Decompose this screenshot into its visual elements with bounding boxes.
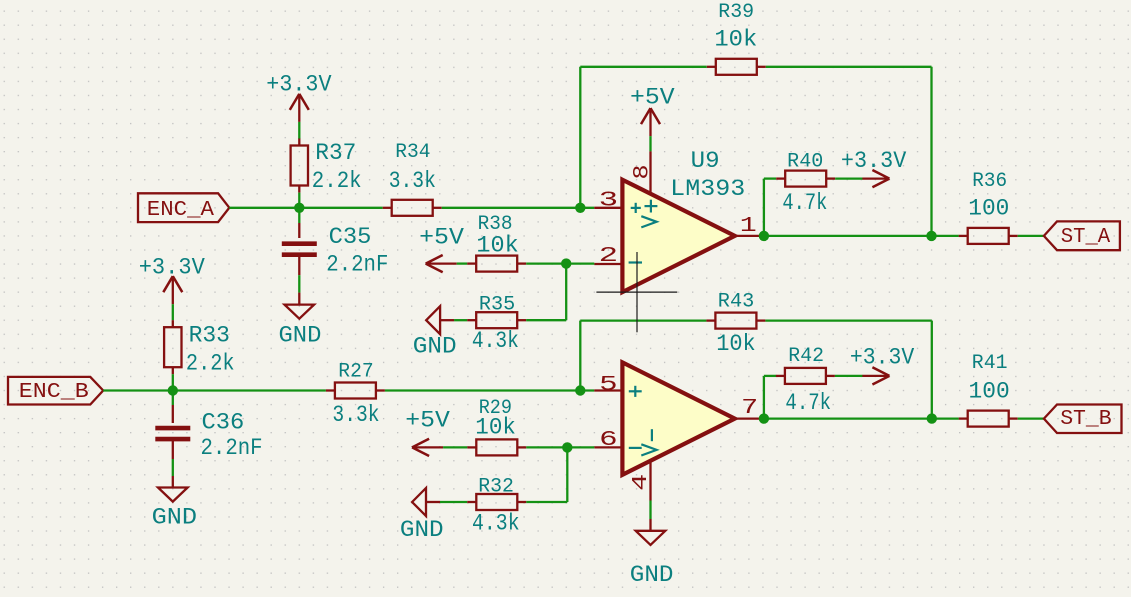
svg-text:R36: R36	[972, 170, 1007, 193]
svg-text:R34: R34	[395, 141, 430, 164]
wire R35 to vertical	[526, 319, 566, 321]
op-amp A output pin 1 stub	[735, 235, 764, 237]
wire GND to R35	[454, 319, 467, 321]
wire output A to R40 riser	[763, 179, 765, 236]
wire junction down to R35	[565, 264, 567, 321]
svg-text:3.3k: 3.3k	[332, 402, 379, 428]
power flag +3.3V at R42	[862, 375, 889, 377]
svg-text:+5V: +5V	[630, 84, 675, 110]
svg-text:2.2k: 2.2k	[186, 351, 235, 377]
op-amp A input + marker	[631, 207, 641, 209]
resistor R34	[383, 207, 392, 209]
hierarchical label ENC_B	[8, 377, 103, 405]
ground GND at R32	[412, 488, 426, 516]
svg-text:2.2k: 2.2k	[312, 168, 362, 194]
resistor R43	[706, 319, 715, 321]
wire +5V to R29	[443, 446, 467, 448]
wire +5V to pin 8	[649, 136, 651, 151]
svg-text:+3.3V: +3.3V	[850, 345, 915, 371]
svg-text:R39: R39	[718, 1, 754, 24]
power flag +5V (pin 8)	[649, 108, 651, 136]
power flag +5V at R38	[426, 262, 457, 264]
op-amp B output pin 7 stub	[735, 417, 764, 419]
svg-text:1: 1	[740, 215, 757, 238]
svg-text:GND: GND	[400, 517, 444, 543]
junction pin2 node	[561, 258, 571, 268]
op-amp B input - marker	[629, 447, 642, 449]
svg-text:100: 100	[969, 379, 1010, 405]
op-amp B pin 5 stub	[594, 389, 622, 391]
wire C35 top	[298, 208, 300, 223]
svg-text:7: 7	[741, 397, 758, 420]
hierarchical label ST_B	[1044, 405, 1122, 434]
svg-text:C35: C35	[329, 224, 372, 250]
junction output A at pin 1	[759, 231, 769, 241]
op-amp U9A pin 8 lead	[649, 151, 651, 193]
svg-text:3: 3	[599, 190, 619, 213]
svg-text:GND: GND	[279, 322, 322, 348]
svg-text:R35: R35	[479, 294, 515, 317]
wire +3.3V to R33	[172, 304, 174, 320]
svg-text:100: 100	[968, 196, 1009, 222]
svg-text:5: 5	[599, 374, 618, 397]
hierarchical label ST_A	[1044, 221, 1120, 250]
wire C36 top	[172, 391, 174, 406]
op-amp A V+ pin name	[645, 205, 658, 207]
ground GND below pin 4	[636, 531, 666, 545]
ground GND below C36	[158, 488, 188, 502]
svg-text:+5V: +5V	[419, 225, 464, 251]
wire ENC_A to R34	[229, 207, 382, 209]
resistor R40	[776, 177, 785, 179]
power flag +5V at R29	[412, 446, 443, 448]
svg-text:R41: R41	[972, 352, 1008, 375]
svg-text:10k: 10k	[714, 27, 757, 53]
wire R32 to vertical	[526, 501, 567, 503]
op-amp B V- pin name	[651, 429, 653, 441]
op-amp U9A LM393 comparator A	[622, 180, 734, 292]
svg-text:10k: 10k	[475, 414, 516, 440]
svg-text:ST_B: ST_B	[1060, 407, 1112, 431]
wire R36 to ST_A	[1018, 235, 1044, 237]
wire R42 to +3.3V	[835, 375, 863, 377]
svg-text:C36: C36	[202, 409, 245, 435]
resistor R42	[776, 375, 785, 377]
svg-text:4.7k: 4.7k	[782, 190, 827, 216]
resistor R32	[467, 501, 476, 503]
svg-text:U9: U9	[691, 148, 720, 174]
resistor R38	[467, 262, 476, 264]
svg-text:2.2nF: 2.2nF	[201, 435, 263, 461]
wire ENC_B to R27	[103, 389, 326, 391]
svg-text:ST_A: ST_A	[1061, 225, 1111, 249]
svg-text:+3.3V: +3.3V	[841, 148, 907, 174]
svg-text:R40: R40	[787, 150, 823, 173]
svg-text:R42: R42	[788, 345, 824, 368]
wire C35 bottom to GND	[298, 255, 300, 275]
svg-text:R27: R27	[338, 360, 373, 383]
junction pin6 node	[562, 442, 572, 452]
junction pin3 node	[575, 203, 585, 213]
wire GND to R32	[440, 501, 467, 503]
svg-text:R37: R37	[315, 140, 356, 166]
wire R37 to node A	[298, 193, 300, 208]
power flag +3.3V at R40	[862, 177, 889, 179]
capacitor C36	[155, 426, 190, 431]
svg-text:+3.3V: +3.3V	[266, 72, 331, 98]
hierarchical label ENC_A	[138, 193, 229, 222]
svg-text:R32: R32	[478, 476, 514, 499]
wire R27 to pin 5 junction	[385, 389, 594, 391]
op-amp A pin 2 stub	[594, 263, 622, 265]
svg-text:GND: GND	[152, 505, 197, 531]
op-amp U9B LM393 comparator B	[622, 362, 734, 474]
svg-text:R43: R43	[718, 290, 755, 313]
wire R34 to pin 3 junction	[442, 207, 595, 209]
resistor R41	[959, 417, 968, 419]
svg-text:10k: 10k	[476, 232, 518, 258]
svg-text:8: 8	[630, 165, 655, 180]
svg-text:4.7k: 4.7k	[785, 390, 831, 416]
svg-text:LM393: LM393	[670, 176, 745, 202]
resistor R27	[326, 389, 335, 391]
op-amp B pin 6 stub	[594, 446, 622, 448]
junction output A at feedback	[926, 231, 936, 241]
svg-text:2.2nF: 2.2nF	[326, 252, 388, 278]
op-amp A input - marker	[629, 261, 642, 263]
svg-text:4.3k: 4.3k	[472, 511, 520, 537]
junction output B at feedback	[927, 413, 937, 423]
svg-text:+5V: +5V	[405, 408, 450, 434]
wire C36 bottom to GND	[172, 439, 174, 459]
junction output B at pin 7	[759, 413, 769, 423]
wire R29 to pin 6	[526, 446, 594, 448]
svg-text:GND: GND	[413, 334, 457, 360]
junction node ENC_B/R33/C36	[168, 385, 178, 395]
junction node ENC_A/R37/C35	[294, 203, 304, 213]
wire R38 to pin 2	[526, 262, 594, 264]
svg-text:10k: 10k	[716, 331, 756, 357]
feedback wire to R39	[579, 67, 581, 208]
wire junction down to R32	[566, 447, 568, 502]
feedback wire to R43	[579, 321, 581, 391]
op-amp A pin 3 stub	[594, 207, 622, 209]
wire R40 to +3.3V	[835, 177, 862, 179]
ground GND below C35	[285, 305, 315, 319]
op-amp B input + marker	[629, 390, 642, 392]
wire R39 to output node	[766, 66, 932, 68]
ground GND at R35	[426, 306, 440, 334]
wire output B row	[764, 417, 959, 419]
power flag +3.3V above R33	[172, 276, 174, 304]
svg-text:3.3k: 3.3k	[389, 168, 436, 194]
svg-text:ENC_B: ENC_B	[19, 380, 89, 404]
wire R33 to node B	[172, 374, 174, 390]
wire +5V to R38	[457, 262, 468, 264]
svg-text:R33: R33	[189, 323, 230, 349]
svg-text:+3.3V: +3.3V	[139, 255, 205, 281]
resistor R33	[172, 320, 174, 327]
capacitor C35	[282, 241, 317, 246]
wire output B to R42 riser	[763, 376, 765, 419]
power flag +3.3V (top, above R37)	[298, 94, 300, 122]
op-amp B pin 4 lead to GND	[649, 461, 651, 501]
wire output A row	[764, 235, 959, 237]
svg-text:ENC_A: ENC_A	[147, 198, 214, 222]
resistor R29	[467, 446, 476, 448]
resistor R37	[298, 139, 300, 146]
wire R43 to output node	[765, 319, 931, 321]
svg-text:GND: GND	[630, 562, 674, 588]
resistor R36	[959, 235, 968, 237]
wire +3.3V to R37	[298, 122, 300, 139]
resistor R35	[467, 319, 476, 321]
cursor crosshair	[596, 291, 677, 293]
svg-text:4.3k: 4.3k	[472, 328, 519, 354]
junction pin5 node	[575, 385, 585, 395]
resistor R39	[707, 66, 716, 68]
wire R41 to ST_B	[1018, 417, 1044, 419]
